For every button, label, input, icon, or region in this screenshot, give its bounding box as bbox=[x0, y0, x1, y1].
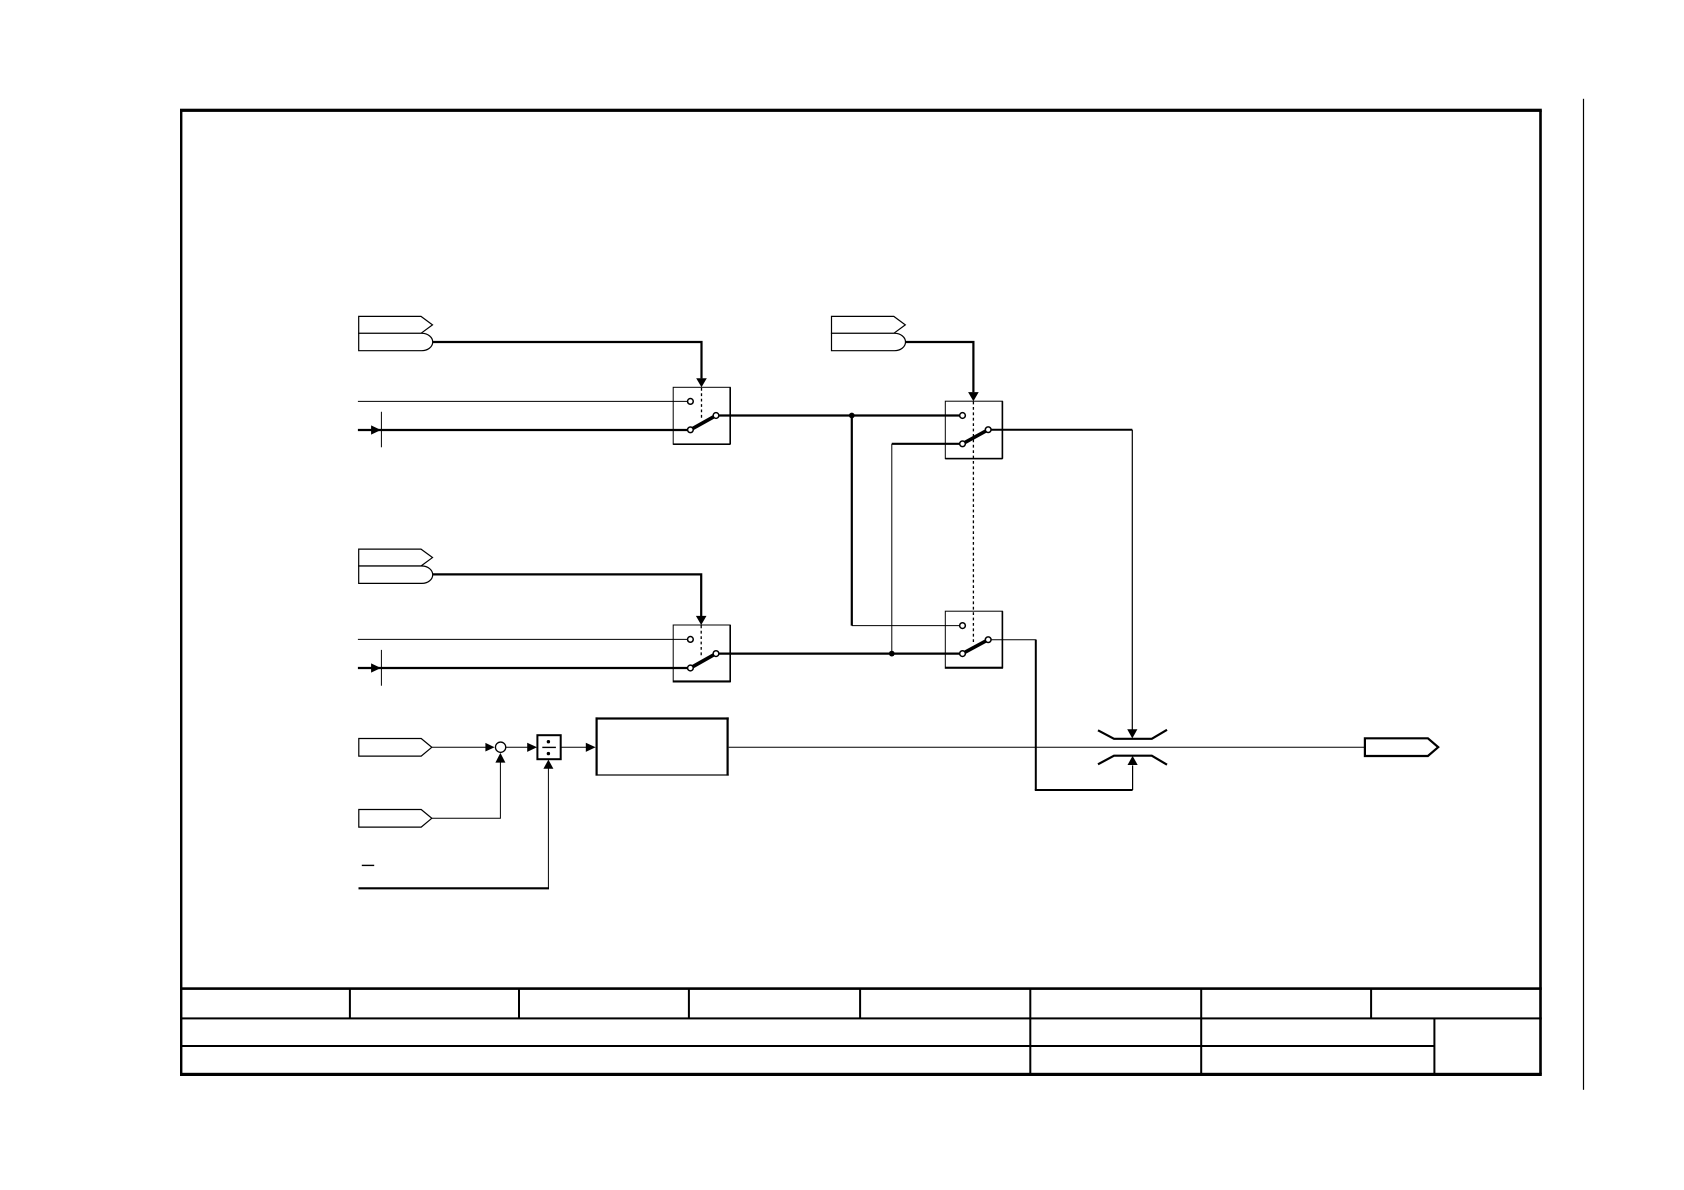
transfer function block bbox=[596, 717, 729, 775]
arrowhead into switch S2 top bbox=[968, 392, 979, 401]
wire: S1 output to S2 upper contact bbox=[719, 414, 959, 416]
arrowhead into switch S1 top bbox=[696, 378, 707, 387]
thick signal line to divider denominator bbox=[359, 887, 550, 889]
dashed control line through S2 down to S4 bbox=[972, 402, 974, 644]
contacts of S4 bbox=[960, 623, 991, 657]
divider block bbox=[537, 735, 560, 759]
contacts of S1 bbox=[688, 399, 719, 433]
arrowhead into divider bbox=[527, 743, 537, 752]
wire summation to transfer block bbox=[561, 746, 586, 748]
switch box S4 bbox=[945, 611, 1003, 668]
input connector 3 (setpoint) bbox=[359, 739, 432, 757]
arrowhead down into limiter top bbox=[1127, 729, 1137, 738]
arrowhead on S3 lower input line bbox=[371, 663, 381, 672]
arrowhead up into divider bottom bbox=[543, 760, 553, 769]
arrowhead into transfer block bbox=[586, 743, 596, 752]
wire: S2 output to limiter upper input bbox=[991, 429, 1132, 431]
output connector bbox=[1365, 738, 1438, 756]
lever of S4 bbox=[963, 640, 989, 654]
tick mark on S3 lower input line bbox=[380, 650, 382, 686]
lever of S3 bbox=[690, 654, 716, 668]
connector pair 1 (top left source symbol) bbox=[359, 316, 433, 350]
divider symbol bbox=[542, 740, 556, 755]
wire: thick input line to S3 lower contact bbox=[358, 667, 687, 669]
switch box S3 bbox=[673, 625, 731, 682]
limiter symbol lower half bbox=[1098, 756, 1167, 765]
wire from connector pair 1 to switch S1 control input bbox=[433, 342, 702, 378]
limiter symbol upper half bbox=[1098, 730, 1167, 739]
connector pair 2 (top right source symbol) bbox=[832, 316, 906, 350]
wire: thin input line to S3 upper contact bbox=[358, 638, 687, 640]
wire: S3 output to S4 lower contact bbox=[719, 652, 959, 654]
wire summation point to divider bbox=[506, 746, 527, 748]
switch box S2 bbox=[945, 401, 1003, 459]
contacts of S2 bbox=[960, 413, 991, 447]
summation point circle bbox=[495, 742, 505, 752]
wire: S4 output to limiter lower input bbox=[991, 639, 1036, 641]
lever of S2 bbox=[963, 430, 989, 444]
wire from connector pair 2 to switch S2 control input bbox=[906, 342, 974, 392]
wire from below into divider bbox=[547, 768, 549, 888]
tick mark on S1 lower input line bbox=[380, 412, 382, 448]
wire: junction down and right to S4 upper contact bbox=[851, 416, 853, 626]
minus label dash bbox=[362, 864, 374, 866]
wire: thin input line to S1 upper contact bbox=[358, 400, 687, 402]
arrowhead into summation point bbox=[485, 743, 494, 752]
lever of S1 bbox=[690, 416, 716, 430]
main output signal line through limiter bbox=[729, 746, 1365, 748]
arrowhead into switch S3 top bbox=[696, 616, 707, 625]
arrowhead on S1 lower input line bbox=[371, 425, 381, 434]
arrowhead up into summation point bottom bbox=[495, 753, 505, 763]
junction node on S3 output line bbox=[889, 651, 895, 657]
contacts of S3 bbox=[688, 637, 719, 671]
wire: branch to S2 lower contact bbox=[892, 443, 960, 445]
wire connector 3 to summation point bbox=[432, 746, 486, 748]
arrowhead up into limiter bottom bbox=[1128, 756, 1138, 765]
junction node on S1 output bbox=[849, 413, 855, 419]
wire from connector pair 3 to switch S3 control input bbox=[433, 574, 702, 616]
connector pair 3 (middle left source symbol) bbox=[359, 549, 433, 583]
input connector 4 bbox=[359, 810, 432, 828]
dashed control line in S3 bbox=[700, 625, 702, 657]
wire: thick input line to S1 lower contact bbox=[358, 429, 687, 431]
dashed control line in S1 bbox=[701, 388, 703, 419]
switch box S1 bbox=[673, 387, 731, 445]
wire connector 4 up into summation point bbox=[432, 762, 501, 818]
